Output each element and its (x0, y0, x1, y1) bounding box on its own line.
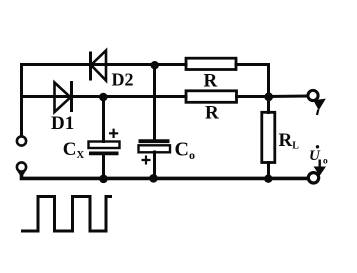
wire R2 right stub to node (237, 95, 269, 98)
resistor RL (262, 112, 275, 162)
svg-text:R: R (204, 71, 218, 92)
svg-text:o: o (323, 157, 328, 167)
svg-text:U: U (309, 148, 321, 164)
label Uo output voltage (309, 145, 328, 166)
resistor R2 (186, 91, 237, 103)
node junction RL bottom (264, 175, 272, 183)
diode D1 (55, 81, 72, 112)
arrow at output bottom terminal (314, 160, 327, 176)
node junction D1-CX (99, 93, 108, 102)
wire Cx bottom branch (102, 155, 105, 179)
svg-text:D1: D1 (51, 113, 74, 134)
wire bottom rail (22, 173, 309, 179)
arrow at output top terminal (313, 99, 326, 115)
wire row2 (through D1 to R2) (22, 95, 187, 98)
wire R1 right stub and corner down (236, 65, 269, 97)
wire node to output terminal top (269, 95, 309, 99)
wire C bottom branch (153, 152, 156, 179)
terminal output bottom (308, 173, 318, 183)
wire C top branch (153, 65, 156, 140)
resistor R1 (186, 58, 236, 69)
wire left vertical (20, 65, 23, 137)
wire Cx top branch (102, 97, 105, 142)
capacitor CX (89, 129, 120, 154)
svg-text:R: R (205, 103, 219, 124)
terminal input top (17, 136, 26, 145)
diode D2 (91, 51, 107, 81)
wire RL bottom to bottom rail (267, 163, 270, 179)
node junction CX bottom (99, 175, 108, 184)
node junction output top (264, 92, 273, 101)
node junction C0 bottom (149, 174, 158, 183)
svg-text:D2: D2 (112, 70, 134, 90)
terminal input bottom (17, 162, 26, 171)
wire node down to RL (267, 97, 270, 113)
wedge joint under input bottom terminal (17, 171, 25, 177)
terminal output top (308, 90, 318, 100)
wire top horizontal (corner through D2 to R1) (22, 63, 187, 66)
square wave input symbol (23, 197, 111, 232)
capacitor C0 (139, 141, 171, 164)
node junction top (C0/R1) (151, 61, 159, 69)
